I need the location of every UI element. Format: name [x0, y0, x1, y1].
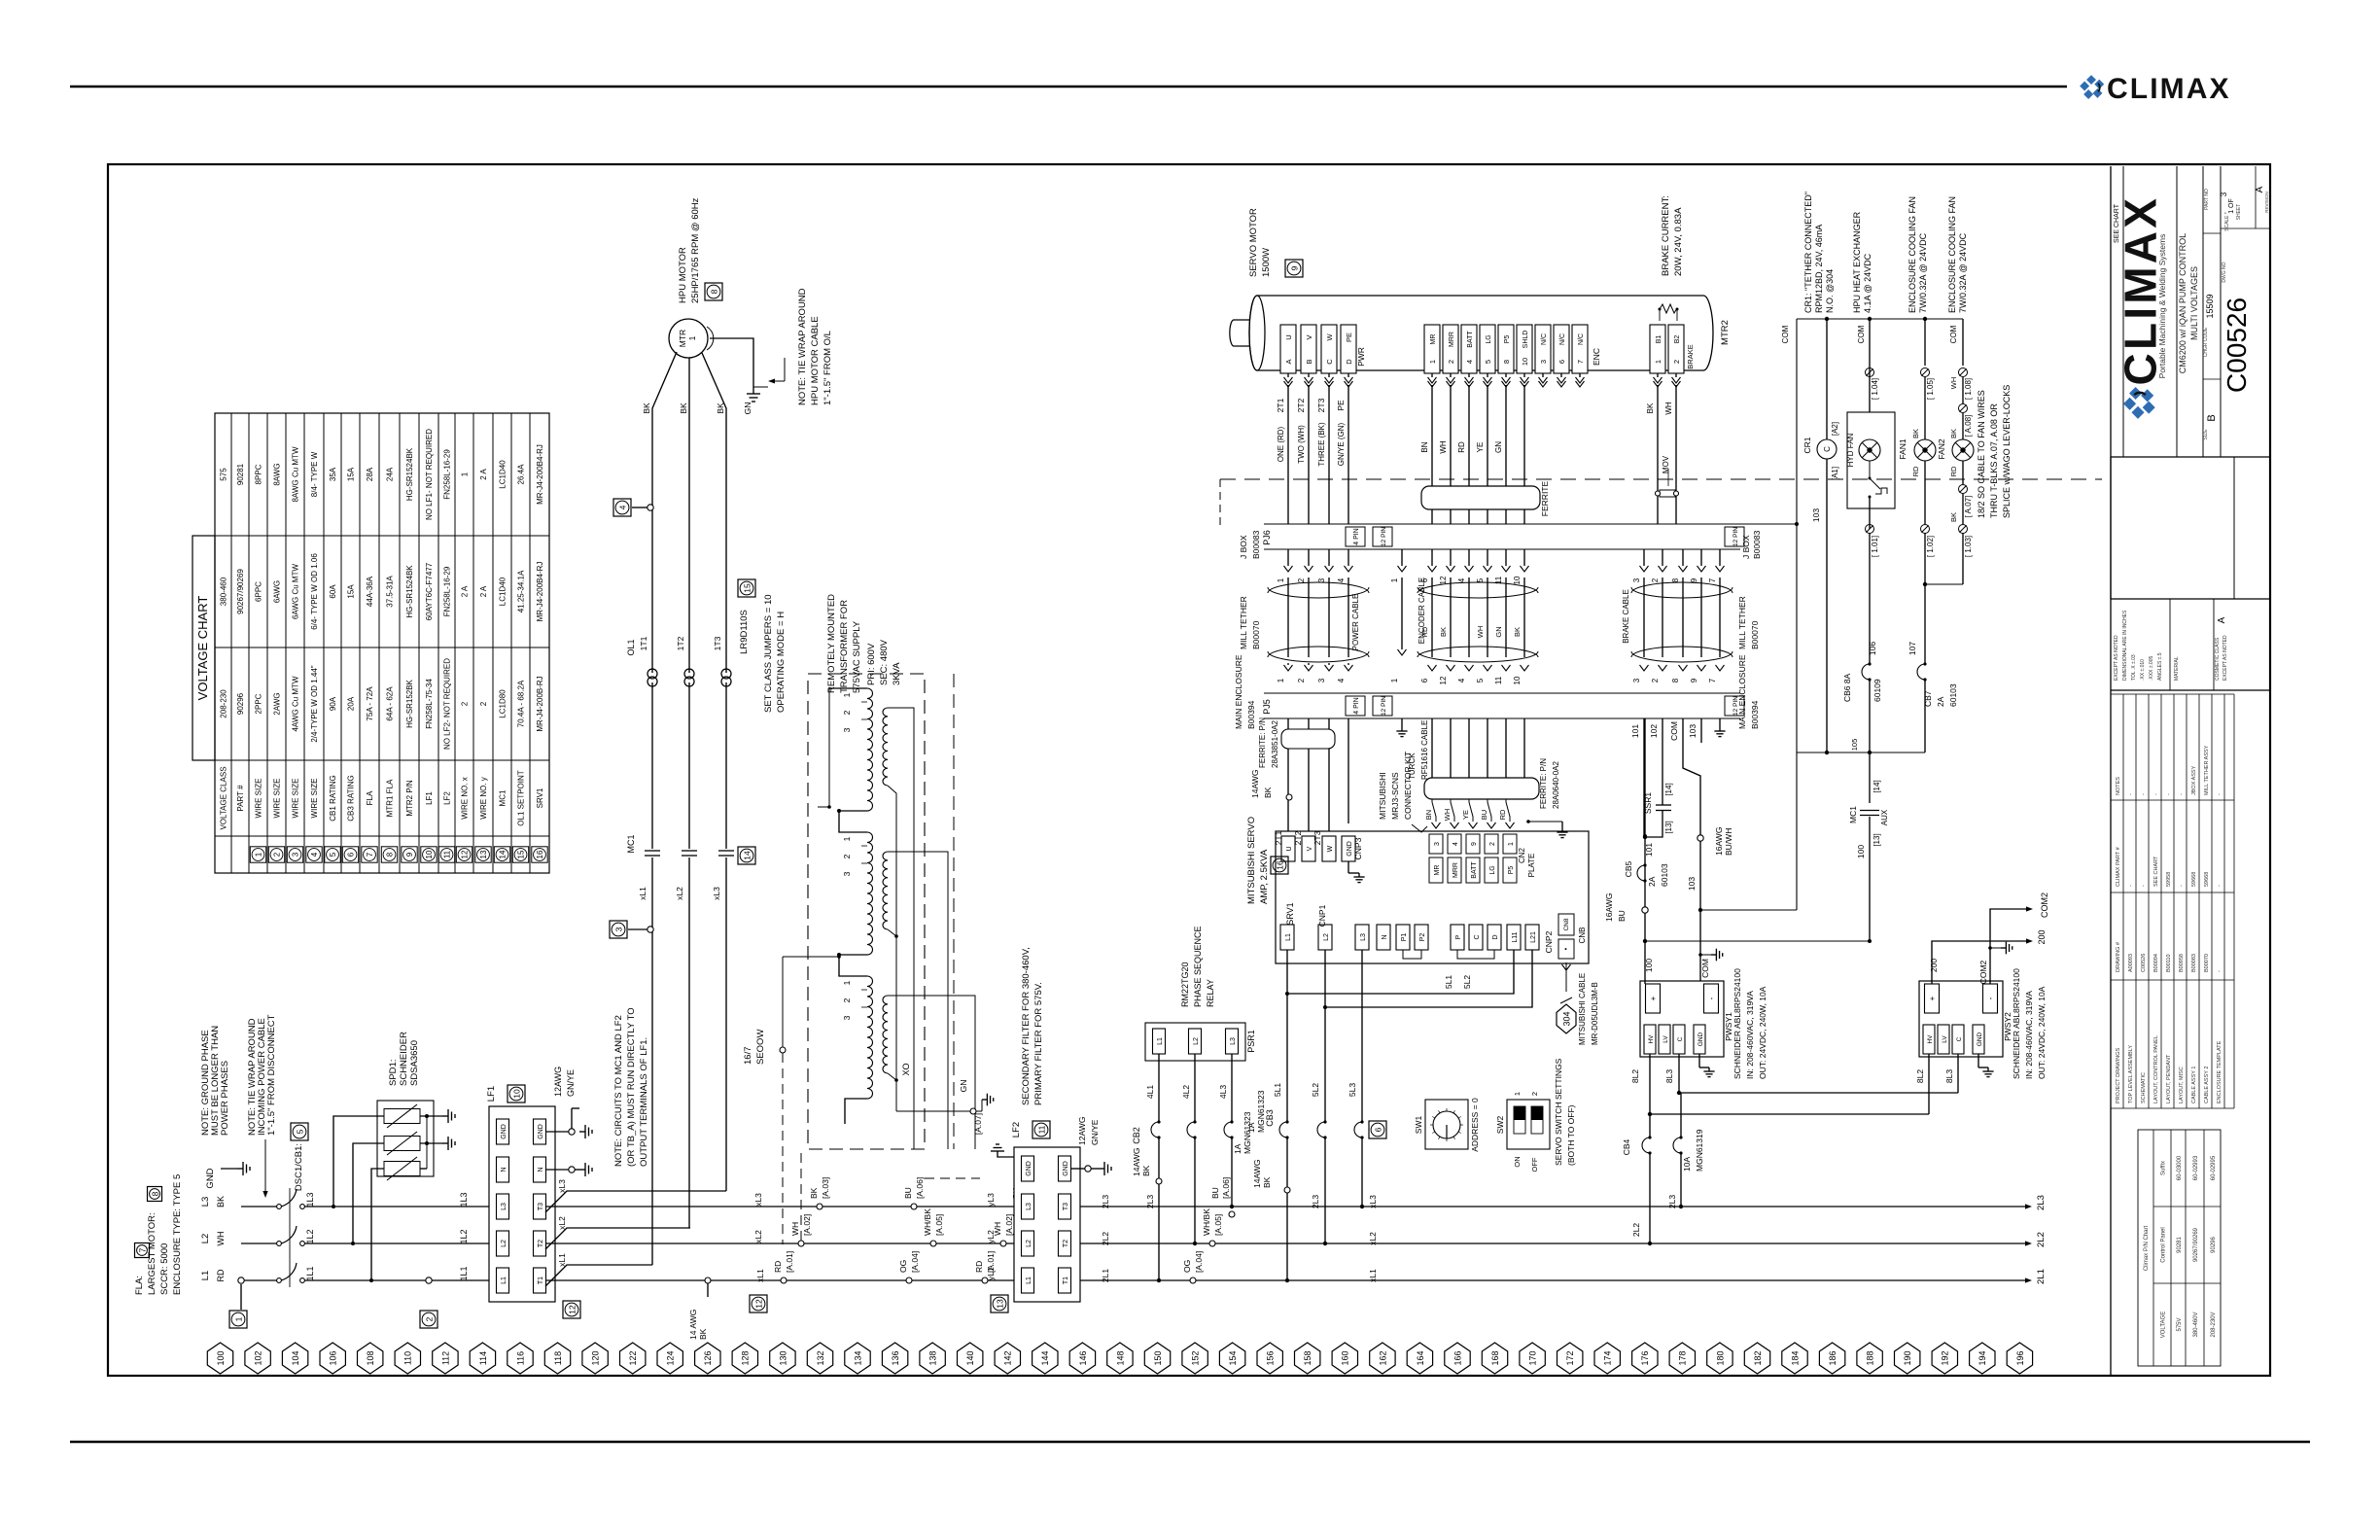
svg-text:PWR: PWR: [1356, 347, 1366, 367]
svg-text:GN: GN: [1494, 626, 1503, 637]
svg-text:yL1: yL1: [986, 1267, 996, 1280]
svg-text:OG: OG: [1182, 1260, 1192, 1273]
svg-text:41.25-34.1A: 41.25-34.1A: [517, 570, 526, 612]
svg-text:1: 1: [1277, 678, 1285, 682]
svg-text:130: 130: [778, 1350, 787, 1365]
svg-text:2: 2: [461, 701, 470, 706]
svg-text:HV: HV: [1927, 1034, 1934, 1044]
junction PJ5 strip: [1264, 692, 1740, 694]
svg-text:GN/YE: GN/YE: [566, 1069, 576, 1097]
svg-text:xL1: xL1: [557, 1253, 567, 1267]
svg-text:HG-SR1524BK: HG-SR1524BK: [405, 447, 414, 501]
svg-text:37.5-31A: 37.5-31A: [386, 576, 395, 608]
svg-text:152: 152: [1190, 1350, 1200, 1365]
tag 1: [229, 1311, 247, 1328]
svg-text:188: 188: [1866, 1350, 1875, 1365]
svg-text:RD: RD: [1420, 626, 1429, 637]
svg-text:CNP1: CNP1: [1317, 904, 1327, 927]
svg-text:8: 8: [1671, 577, 1680, 582]
varistor MOV: [1660, 490, 1675, 497]
LF2 ground left: [997, 1151, 1014, 1157]
COM brake stub: [1720, 523, 1797, 525]
svg-text:178: 178: [1678, 1350, 1688, 1365]
bottom rail 105: [1797, 752, 1925, 753]
svg-text:PRI: 600V: PRI: 600V: [866, 643, 877, 685]
svg-text:4: 4: [617, 505, 627, 509]
svg-text:16: 16: [536, 850, 544, 858]
svg-text:V: V: [1305, 334, 1313, 339]
svg-text:P2: P2: [1419, 933, 1426, 942]
contactor MC1 aux contact: [1869, 752, 1871, 803]
svg-text:B1: B1: [1656, 335, 1662, 344]
svg-text:LARGEST MOTOR:: LARGEST MOTOR:: [147, 1212, 157, 1295]
hyd fan thermostat: [1869, 461, 1871, 478]
svg-text:8: 8: [1671, 678, 1680, 682]
svg-text:[ 1.08]: [ 1.08]: [1964, 378, 1973, 400]
svg-text:LC1D40: LC1D40: [499, 460, 507, 489]
svg-text:SCHNEIDER ABL8RPS24100: SCHNEIDER ABL8RPS24100: [2012, 968, 2021, 1079]
svg-text:172: 172: [1565, 1350, 1575, 1365]
svg-text:MR-D05UDL3M-B: MR-D05UDL3M-B: [1591, 982, 1599, 1045]
svg-text:8: 8: [709, 289, 718, 294]
svg-text:3: 3: [1317, 577, 1326, 582]
svg-text:60103: 60103: [1948, 683, 1958, 707]
CN2 connector: [1432, 822, 1441, 828]
svg-text:T3: T3: [538, 1203, 544, 1210]
svg-text:MR-J4-200B4-RJ: MR-J4-200B4-RJ: [536, 444, 544, 505]
svg-text:Portable Machining & Welding S: Portable Machining & Welding Systems: [2157, 234, 2167, 379]
svg-text:BRAKE CURRENT:: BRAKE CURRENT:: [1661, 195, 1671, 276]
PWSY2 gnd: [1977, 1054, 1979, 1067]
svg-text:28A: 28A: [366, 467, 374, 481]
svg-text:194: 194: [1977, 1350, 1987, 1365]
svg-text:146: 146: [1078, 1350, 1088, 1365]
svg-text:1A: 1A: [1246, 1122, 1256, 1133]
svg-text:148: 148: [1115, 1350, 1125, 1365]
svg-text:CB6 8A: CB6 8A: [1842, 673, 1852, 702]
PE wire to CNP3 GND: [1347, 718, 1349, 823]
svg-text:1: 1: [1428, 360, 1437, 364]
svg-text:BU: BU: [1480, 810, 1488, 820]
svg-text:GN: GN: [743, 402, 752, 415]
svg-text:CB1 RATING: CB1 RATING: [329, 775, 337, 821]
svg-text:N: N: [1382, 934, 1388, 939]
svg-text:D: D: [1345, 359, 1353, 365]
svg-text:14: 14: [499, 850, 507, 858]
svg-text:3: 3: [842, 871, 852, 876]
tag 6: [1369, 1121, 1386, 1138]
LF2 ground GND right: [1070, 1168, 1085, 1170]
servo motor shaft: [1230, 320, 1249, 346]
svg-text:LAYOUT, MISC: LAYOUT, MISC: [2179, 1067, 2185, 1103]
svg-text:14AWG: 14AWG: [1132, 1148, 1141, 1176]
svg-text:L1: L1: [1157, 1037, 1164, 1045]
transformer secondary outputs: [888, 708, 914, 1149]
svg-text:SIZE: SIZE: [2203, 429, 2209, 440]
svg-text:COM: COM: [1949, 325, 1958, 343]
svg-text:MULTI VOLTAGES: MULTI VOLTAGES: [2189, 266, 2199, 340]
svg-text:-: -: [2128, 885, 2134, 887]
svg-text:2L2: 2L2: [1631, 1223, 1641, 1237]
svg-text:5: 5: [1476, 577, 1485, 582]
svg-text:2: 2: [1297, 577, 1306, 582]
svg-text:-: -: [2141, 885, 2147, 887]
svg-text:140: 140: [965, 1350, 975, 1365]
svg-text:MAIN ENCLOSURE: MAIN ENCLOSURE: [1737, 654, 1747, 729]
svg-text:208-230V: 208-230V: [2211, 1312, 2217, 1337]
svg-text:T2: T2: [1063, 1240, 1069, 1247]
svg-text:108: 108: [366, 1350, 375, 1365]
svg-text:J BOX: J BOX: [1741, 535, 1751, 559]
svg-text:60-02993: 60-02993: [2193, 1155, 2199, 1180]
svg-text:5: 5: [1484, 360, 1492, 364]
title block section1 dividers: [2122, 166, 2124, 457]
svg-text:PSR1: PSR1: [1246, 1030, 1256, 1053]
plate ground: [1528, 821, 1562, 822]
svg-text:[ 1.03]: [ 1.03]: [1964, 536, 1973, 557]
voltage chart tag row: [250, 847, 265, 862]
8L3 bus: [1679, 1092, 1958, 1094]
svg-text:ENCLOSURE TYPE: TYPE 5: ENCLOSURE TYPE: TYPE 5: [172, 1174, 183, 1295]
svg-text:SERVO SWITCH SETTINGS: SERVO SWITCH SETTINGS: [1554, 1058, 1563, 1166]
svg-text:3: 3: [1434, 842, 1441, 846]
svg-text:[13]: [13]: [1664, 821, 1673, 833]
tag 2: [420, 1311, 437, 1328]
14AWG BK label: [1286, 794, 1292, 800]
svg-text:[A.04]: [A.04]: [1194, 1251, 1204, 1273]
svg-text:90A: 90A: [329, 696, 337, 711]
svg-text:13: 13: [479, 850, 488, 858]
transformer secondary coils: [883, 708, 888, 786]
svg-text:2: 2: [1447, 360, 1455, 364]
svg-text:MITSUBISHI: MITSUBISHI: [1378, 772, 1387, 820]
svg-text:B: B: [1305, 359, 1313, 364]
svg-text:TOL .X ±.03: TOL .X ±.03: [2131, 654, 2137, 681]
svg-text:156: 156: [1266, 1350, 1276, 1365]
svg-text:PHASE SEQUENCE: PHASE SEQUENCE: [1193, 926, 1203, 1007]
svg-text:JBOX ASSY: JBOX ASSY: [2191, 765, 2197, 795]
svg-text:xL2: xL2: [753, 1230, 763, 1243]
svg-text:LV: LV: [1662, 1035, 1669, 1043]
svg-text:MILL TETHER: MILL TETHER: [1239, 596, 1248, 649]
svg-text:CB2: CB2: [1132, 1127, 1141, 1144]
svg-text:8L2: 8L2: [1630, 1069, 1640, 1083]
svg-text:186: 186: [1828, 1350, 1837, 1365]
tag 13 mid: [991, 1295, 1008, 1312]
svg-text:1L3: 1L3: [305, 1192, 315, 1207]
voltage chart table: [215, 413, 549, 873]
svg-text:SEE CHART: SEE CHART: [2153, 856, 2159, 887]
svg-text:64A - 62A: 64A - 62A: [386, 686, 395, 721]
svg-text:1"-1.5" FROM DISCONNECT: 1"-1.5" FROM DISCONNECT: [266, 1014, 277, 1136]
svg-text:DRAWING #: DRAWING #: [2116, 941, 2121, 972]
breaker CB5: [1637, 865, 1645, 881]
svg-text:11: 11: [443, 850, 452, 858]
svg-text:26.4A: 26.4A: [517, 464, 526, 485]
svg-text:4AWG Cu MTW: 4AWG Cu MTW: [292, 676, 300, 731]
dip switch SW2: [1507, 1100, 1550, 1149]
svg-text:CB3: CB3: [1265, 1109, 1275, 1127]
svg-text:10: 10: [1521, 358, 1529, 366]
svg-text:35A: 35A: [329, 467, 337, 481]
svg-text:GN: GN: [959, 1080, 968, 1093]
tolerance block: [2111, 689, 2270, 691]
svg-text:J BOX: J BOX: [1239, 535, 1248, 559]
svg-text:10: 10: [425, 850, 434, 858]
svg-text:2: 2: [273, 852, 282, 857]
svg-text:1: 1: [461, 472, 470, 476]
svg-text:60109: 60109: [1872, 679, 1882, 702]
svg-text:PE: PE: [1345, 332, 1353, 342]
CNP1 connector: [1280, 925, 1294, 950]
svg-text:MGN61323: MGN61323: [1256, 1090, 1266, 1133]
climax pn chart mini table: [2138, 1130, 2221, 1366]
svg-text:2L2: 2L2: [2036, 1232, 2047, 1247]
svg-text:CB5: CB5: [1624, 860, 1633, 877]
svg-text:B: B: [2206, 414, 2218, 421]
svg-text:FN258L-75-34: FN258L-75-34: [425, 679, 434, 729]
svg-text:59668: 59668: [2204, 872, 2210, 887]
svg-text:AMP, 2.5KVA: AMP, 2.5KVA: [1259, 849, 1270, 904]
svg-text:HPU HEAT EXCHANGER: HPU HEAT EXCHANGER: [1852, 211, 1862, 313]
svg-text:575V: 575V: [2177, 1317, 2183, 1331]
svg-text:120: 120: [591, 1350, 601, 1365]
svg-text:2A: 2A: [1936, 696, 1945, 707]
servo motor MTR2 body: [1249, 296, 1713, 370]
svg-text:L2: L2: [1026, 1240, 1032, 1247]
svg-text:1: 1: [842, 980, 852, 985]
svg-text:7: 7: [1576, 360, 1585, 364]
svg-text:166: 166: [1452, 1350, 1462, 1365]
wire 102 to SSR1: [1662, 795, 1663, 805]
mill tether cable power: [1268, 582, 1369, 593]
svg-text:N/C: N/C: [1541, 333, 1548, 345]
svg-text:1: 1: [1508, 842, 1515, 846]
svg-text:ANGLES ±.5: ANGLES ±.5: [2157, 652, 2163, 681]
svg-text:8: 8: [1502, 360, 1511, 364]
svg-text:10: 10: [511, 1089, 521, 1099]
svg-text:304: 304: [1561, 1011, 1571, 1026]
svg-text:5: 5: [1476, 678, 1485, 682]
svg-text:AUX: AUX: [1880, 809, 1889, 825]
svg-text:138: 138: [928, 1350, 938, 1365]
svg-text:LF2: LF2: [443, 791, 452, 805]
svg-text:N/C: N/C: [1559, 333, 1566, 345]
svg-text:BN: BN: [1420, 441, 1429, 452]
SSR1 output wire: [1645, 811, 1662, 838]
svg-text:BK: BK: [1141, 1165, 1151, 1176]
svg-text:4 PIN: 4 PIN: [1353, 697, 1360, 715]
svg-text:SSR1: SSR1: [1643, 792, 1653, 814]
svg-text:128: 128: [741, 1350, 751, 1365]
svg-text:1"-1.5" FROM O/L: 1"-1.5" FROM O/L: [822, 331, 833, 405]
svg-text:DSC1/CB1:: DSC1/CB1:: [294, 1143, 304, 1191]
svg-text:[A.06]: [A.06]: [1221, 1177, 1231, 1199]
svg-text:YE: YE: [1461, 810, 1470, 820]
power supply PWSY2: [1919, 981, 2003, 1057]
svg-text:P5: P5: [1504, 335, 1511, 344]
svg-text:28A3851-0A2: 28A3851-0A2: [1271, 720, 1279, 768]
svg-text:OL1 SETPOINT: OL1 SETPOINT: [517, 770, 526, 825]
svg-text:170: 170: [1528, 1350, 1538, 1365]
svg-text:1L3: 1L3: [459, 1192, 469, 1207]
svg-text:TWO (WH): TWO (WH): [1297, 425, 1306, 464]
svg-text:16AWG: 16AWG: [1604, 893, 1614, 922]
svg-text:RD: RD: [1498, 809, 1507, 820]
svg-text:MTR2: MTR2: [1720, 320, 1731, 345]
svg-text:101: 101: [1644, 843, 1654, 857]
svg-text:60A: 60A: [329, 584, 337, 599]
svg-text:WIRE SIZE: WIRE SIZE: [310, 779, 319, 819]
svg-text:MRR: MRR: [1452, 862, 1459, 878]
encoder wires to CN2: [1431, 718, 1433, 778]
svg-text:116: 116: [515, 1351, 525, 1365]
svg-text:3: 3: [1632, 577, 1641, 582]
svg-text:xL1: xL1: [638, 887, 647, 900]
extra dashed boundary: [953, 674, 955, 1149]
svg-text:20A: 20A: [347, 696, 356, 711]
svg-text:C: C: [1823, 446, 1832, 452]
svg-text:BATT: BATT: [1467, 331, 1474, 348]
svg-text:P: P: [1455, 934, 1462, 939]
dwg no cell: [2221, 227, 2270, 229]
svg-text:MILL TETHER: MILL TETHER: [1737, 596, 1747, 649]
svg-text:BU: BU: [1210, 1187, 1220, 1199]
svg-text:DIMENSIONAL ARE IN INCHES: DIMENSIONAL ARE IN INCHES: [2122, 610, 2128, 681]
svg-text:15: 15: [517, 850, 526, 858]
svg-text:RPM12BD, 24V, 46mA: RPM12BD, 24V, 46mA: [1814, 225, 1824, 313]
svg-text:HPU MOTOR CABLE: HPU MOTOR CABLE: [810, 316, 821, 405]
svg-text:THRU T-BLKS A.07, A.08 OR: THRU T-BLKS A.07, A.08 OR: [1989, 403, 1999, 518]
brake cable mid: [1631, 582, 1732, 593]
svg-text:1: 1: [1390, 678, 1399, 682]
svg-text:(BOTH TO OFF): (BOTH TO OFF): [1566, 1104, 1576, 1166]
svg-text:90267/90269: 90267/90269: [2193, 1227, 2199, 1262]
svg-text:105: 105: [1850, 739, 1859, 752]
svg-text:1: 1: [687, 335, 697, 340]
page bottom rule: [70, 1441, 2310, 1444]
16AWG BU splice: [1642, 907, 1648, 913]
CB2 outputs to buses: [1158, 1137, 1160, 1280]
svg-text:EXCEPT AS NOTED: EXCEPT AS NOTED: [2114, 635, 2119, 681]
hyd fan box: [1847, 412, 1895, 508]
svg-text:L2: L2: [200, 1234, 211, 1244]
svg-text:L3: L3: [1360, 933, 1367, 941]
svg-text:MC1: MC1: [1848, 806, 1858, 823]
ground 12pin: [1401, 718, 1403, 727]
chgr code cell: [2203, 232, 2221, 234]
svg-text:110: 110: [403, 1351, 413, 1365]
svg-text:U: U: [1286, 846, 1293, 851]
wire 101 CB5: [1644, 718, 1646, 984]
svg-text:118: 118: [553, 1351, 563, 1365]
svg-text:1: 1: [255, 852, 263, 857]
svg-text:380-460: 380-460: [220, 577, 228, 606]
PJ6 pins encoder: [1428, 566, 1437, 572]
svg-text:GND: GND: [538, 1124, 544, 1139]
svg-text:B00083: B00083: [1752, 530, 1762, 559]
svg-text:12: 12: [567, 1305, 577, 1314]
junction PJ6 strip: [1264, 523, 1740, 525]
svg-text:MATERIAL: MATERIAL: [2174, 656, 2180, 681]
svg-text:CNP3: CNP3: [1353, 837, 1363, 859]
svg-text:BU: BU: [903, 1187, 913, 1199]
svg-text:B00394: B00394: [1246, 700, 1256, 729]
svg-text:6: 6: [1420, 678, 1429, 682]
rotary switch SW1: [1425, 1100, 1468, 1149]
svg-text:8PPC: 8PPC: [255, 464, 263, 484]
svg-text:BK: BK: [1263, 787, 1273, 798]
svg-text:WH: WH: [216, 1232, 226, 1246]
svg-text:ENCLOSURE TEMPLATE: ENCLOSURE TEMPLATE: [2217, 1040, 2222, 1103]
tag 14 MC1: [738, 847, 755, 864]
svg-text:114: 114: [478, 1351, 488, 1365]
svg-text:B00958: B00958: [2179, 954, 2185, 972]
svg-text:-: -: [2217, 793, 2222, 795]
svg-text:4: 4: [1457, 577, 1466, 582]
svg-text:FERRITE: P/N: FERRITE: P/N: [1258, 717, 1267, 768]
svg-text:DWG NO: DWG NO: [2222, 262, 2227, 282]
wire color tags A01-A06: [982, 1277, 988, 1283]
svg-text:PJ5: PJ5: [1262, 699, 1272, 715]
svg-text:3: 3: [1539, 360, 1548, 364]
svg-text:[A.05]: [A.05]: [1213, 1214, 1223, 1236]
fan join: [1925, 583, 1963, 585]
svg-text:BK: BK: [1262, 1176, 1272, 1188]
svg-text:xL2: xL2: [1368, 1232, 1378, 1245]
svg-text:[ 1.01]: [ 1.01]: [1871, 536, 1879, 557]
svg-text:14: 14: [742, 851, 752, 860]
XO ground wire: [896, 1110, 970, 1112]
svg-text:8L2: 8L2: [1915, 1069, 1925, 1083]
hyd fan branch: [1869, 319, 1871, 412]
svg-text:106: 106: [1868, 642, 1877, 655]
svg-text:-: -: [2128, 793, 2134, 795]
svg-text:CN8: CN8: [1563, 918, 1570, 930]
svg-text:LG: LG: [1486, 334, 1492, 343]
motor lead 2: [688, 358, 690, 667]
svg-text:4L3: 4L3: [1218, 1085, 1228, 1099]
svg-text:[A.05]: [A.05]: [934, 1214, 944, 1236]
svg-text:[ A.08]: [ A.08]: [1964, 415, 1973, 437]
svg-text:2: 2: [1530, 1092, 1539, 1096]
svg-text:2 A: 2 A: [479, 469, 488, 480]
svg-text:3: 3: [292, 852, 300, 857]
svg-text:LC1D80: LC1D80: [499, 689, 507, 718]
svg-text:OFF: OFF: [1530, 1157, 1539, 1172]
svg-text:N/C: N/C: [1578, 333, 1585, 345]
svg-text:SEC: 480V: SEC: 480V: [879, 639, 890, 685]
svg-text:9: 9: [1471, 842, 1478, 846]
svg-text:[ 1.02]: [ 1.02]: [1926, 536, 1935, 557]
svg-text:MR-J4-200B4-RJ: MR-J4-200B4-RJ: [536, 562, 544, 622]
fan1 branch: [1924, 319, 1926, 366]
svg-text:B2: B2: [1674, 335, 1681, 344]
COM wire splice: [1697, 835, 1703, 841]
svg-text:xL3: xL3: [753, 1193, 763, 1207]
svg-text:MTR: MTR: [678, 330, 687, 347]
SPD1 outputs: [420, 1115, 442, 1117]
svg-text:WIRE SIZE: WIRE SIZE: [273, 779, 282, 819]
svg-text:CLIMAX PART #: CLIMAX PART #: [2116, 846, 2121, 887]
svg-text:75A - 72A: 75A - 72A: [366, 686, 374, 721]
svg-text:FERRITE: P/N: FERRITE: P/N: [1539, 758, 1548, 809]
svg-text:U: U: [1284, 334, 1293, 339]
svg-text:NO LF1- NOT REQUIRED: NO LF1- NOT REQUIRED: [425, 429, 434, 520]
svg-text:4L2: 4L2: [1181, 1085, 1191, 1099]
svg-text:[A.04]: [A.04]: [910, 1251, 920, 1273]
svg-text:134: 134: [853, 1350, 862, 1365]
